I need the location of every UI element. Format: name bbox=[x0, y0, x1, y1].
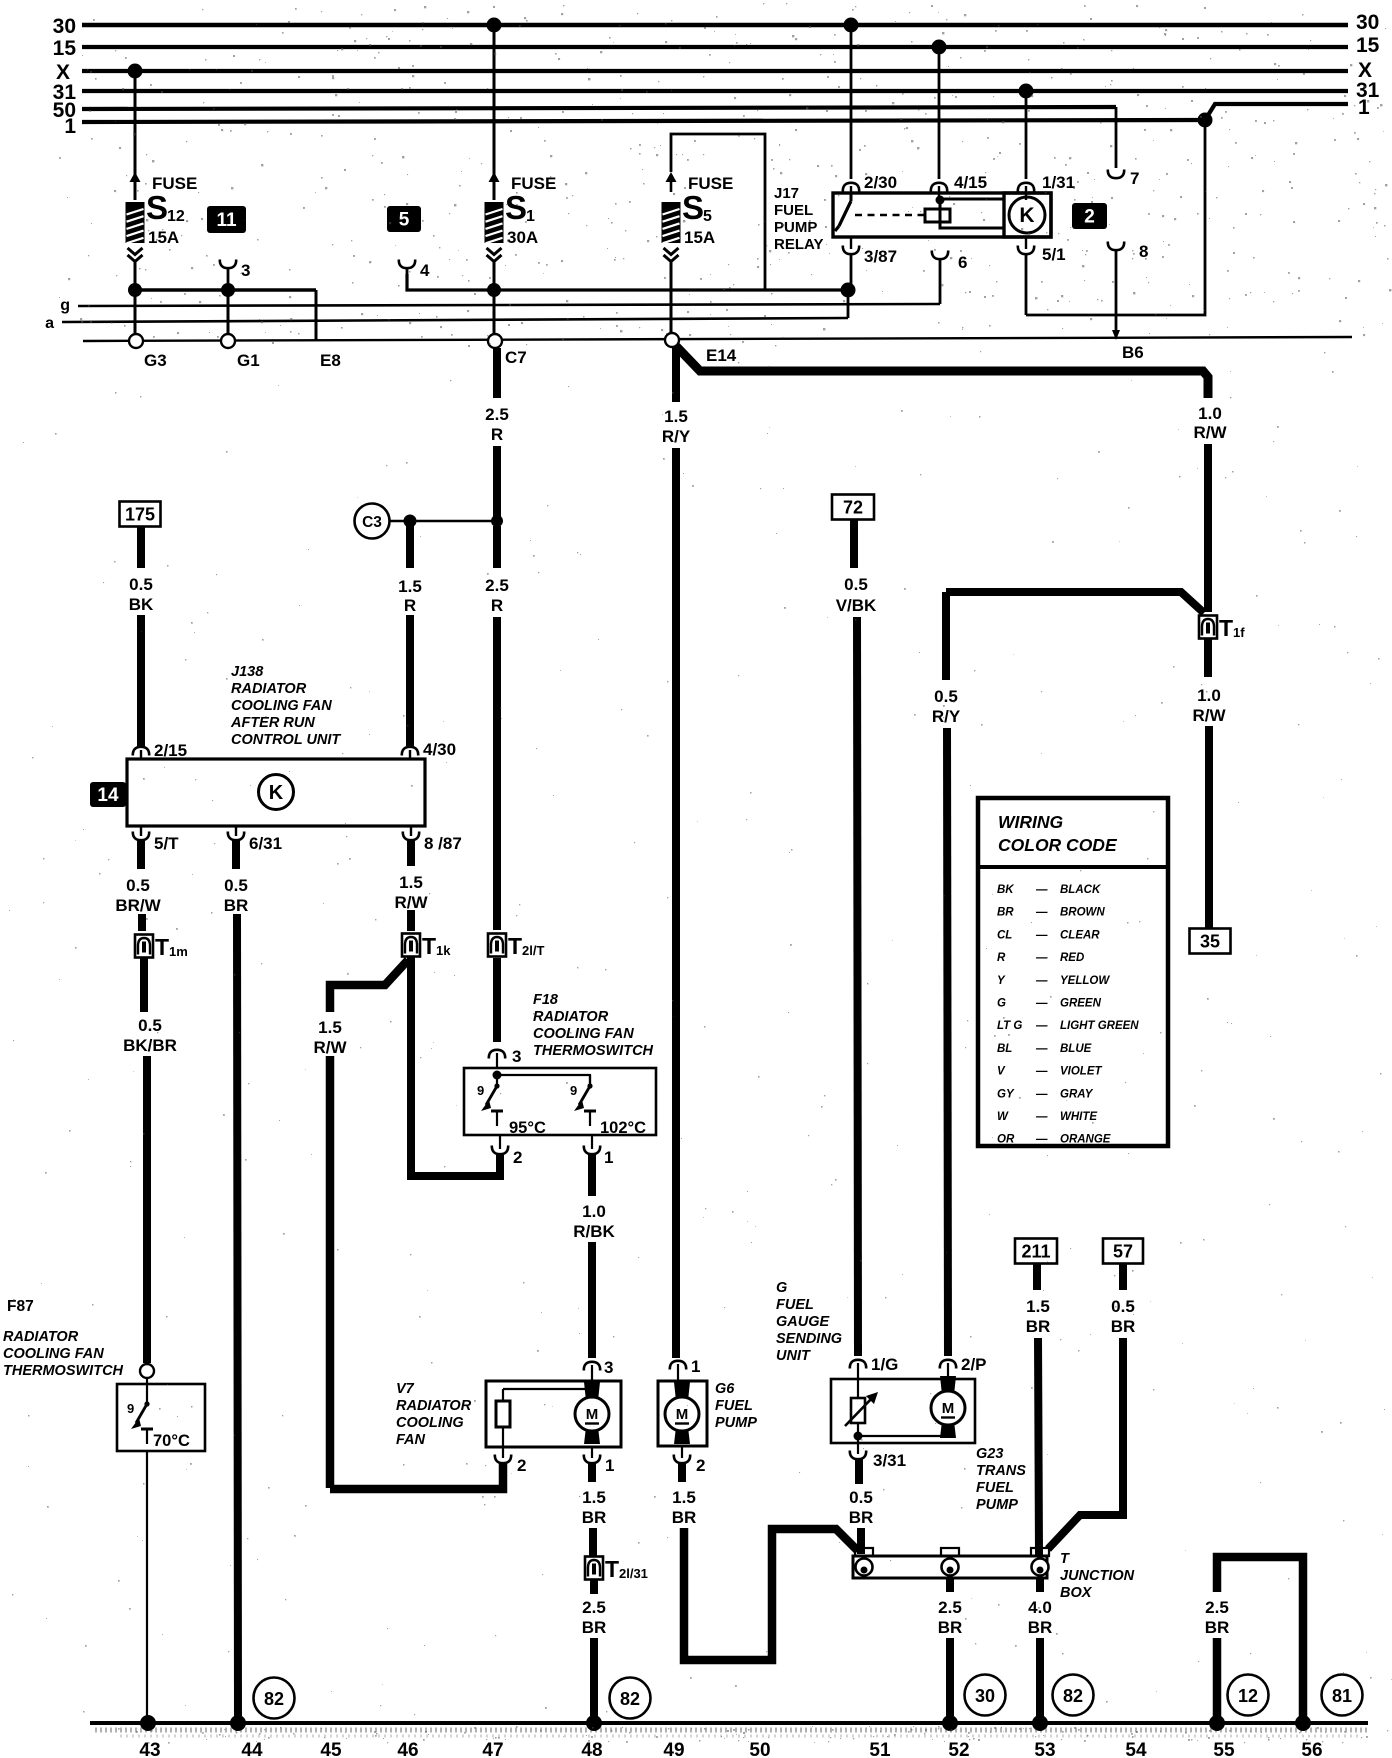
svg-text:GREEN: GREEN bbox=[1060, 998, 1102, 1010]
svg-text:12: 12 bbox=[167, 208, 185, 225]
connector E8 drop wire bbox=[315, 290, 318, 340]
terminal box 175 bbox=[120, 502, 161, 527]
svg-text:82: 82 bbox=[1063, 1686, 1083, 1706]
terminal box 35 bbox=[1190, 929, 1231, 954]
svg-text:54: 54 bbox=[1125, 1740, 1147, 1758]
svg-text:OR: OR bbox=[997, 1134, 1015, 1146]
svg-text:FUEL: FUEL bbox=[774, 202, 813, 219]
svg-text:5: 5 bbox=[703, 208, 712, 225]
svg-text:1.5: 1.5 bbox=[672, 1488, 696, 1507]
label 0.5 BR bbox=[224, 876, 249, 915]
svg-text:2: 2 bbox=[513, 1148, 522, 1167]
svg-text:BR: BR bbox=[849, 1508, 874, 1527]
ground track line bbox=[90, 1723, 1368, 1736]
svg-text:BR: BR bbox=[1111, 1317, 1136, 1336]
wire 1.5 BR from fuel pump G6 to junction box bbox=[682, 1463, 858, 1660]
wire from F87 to ground track 43 bbox=[146, 1451, 148, 1722]
svg-text:82: 82 bbox=[620, 1689, 640, 1709]
svg-text:GRAY: GRAY bbox=[1060, 1088, 1094, 1100]
track symbol 30 at 52 bbox=[965, 1675, 1006, 1716]
svg-text:30: 30 bbox=[975, 1686, 995, 1706]
svg-text:TRANS: TRANS bbox=[976, 1463, 1026, 1479]
svg-text:BR: BR bbox=[1205, 1618, 1230, 1637]
svg-text:9: 9 bbox=[570, 1083, 577, 1098]
track nodes on ground track bbox=[140, 1715, 156, 1731]
svg-text:G6: G6 bbox=[715, 1381, 735, 1397]
label 0.5 BK/BR bbox=[123, 1016, 177, 1055]
sending unit G internal node bbox=[854, 1428, 949, 1441]
svg-text:3/87: 3/87 bbox=[864, 247, 897, 266]
svg-text:2.5: 2.5 bbox=[485, 405, 509, 424]
thermoswitch F18 terminal 2 bbox=[492, 1135, 523, 1167]
svg-text:0.5: 0.5 bbox=[849, 1488, 873, 1507]
label 1.5 BR at G6 bbox=[672, 1488, 697, 1527]
connector T1f bbox=[1199, 616, 1217, 639]
svg-text:RADIATOR: RADIATOR bbox=[533, 1009, 609, 1025]
svg-text:J138: J138 bbox=[231, 664, 264, 680]
svg-text:G1: G1 bbox=[237, 351, 260, 370]
svg-text:COOLING FAN: COOLING FAN bbox=[533, 1026, 634, 1042]
connector E14 bbox=[665, 333, 737, 365]
svg-text:6: 6 bbox=[958, 253, 967, 272]
bus line 15 bbox=[53, 34, 1380, 60]
current track box 14 bbox=[90, 782, 126, 807]
wire 0.5 BR from terminal 57 to junction box bbox=[1048, 1239, 1143, 1550]
label 0.5 V/BK bbox=[836, 575, 877, 615]
svg-text:1.5: 1.5 bbox=[1026, 1297, 1050, 1316]
line a bbox=[45, 290, 848, 332]
wire 2.5 BR to track 48 bbox=[590, 1580, 598, 1722]
svg-text:—: — bbox=[1035, 952, 1048, 964]
svg-text:0.5: 0.5 bbox=[126, 876, 150, 895]
connector T2l/T bbox=[488, 934, 506, 957]
wire relay terminal 4/15 to bus 15 bbox=[931, 40, 987, 205]
svg-text:BK/BR: BK/BR bbox=[123, 1036, 177, 1055]
svg-text:—: — bbox=[1035, 1111, 1048, 1123]
svg-text:211: 211 bbox=[1021, 1242, 1050, 1262]
wire 1.5 R from node C3 down to terminal 4/30 bbox=[406, 521, 414, 746]
radiator cooling fan V7 box bbox=[486, 1381, 621, 1447]
svg-text:C3: C3 bbox=[362, 514, 382, 531]
branch wire 1.5 R/W from T1k to radiator fan V7 terminal 2 bbox=[330, 960, 503, 1489]
svg-text:SENDING: SENDING bbox=[776, 1331, 842, 1347]
label 1.5 BR at 211 bbox=[1026, 1297, 1051, 1336]
svg-text:49: 49 bbox=[663, 1740, 684, 1758]
svg-text:5: 5 bbox=[399, 210, 410, 231]
svg-text:12: 12 bbox=[1238, 1686, 1258, 1706]
svg-text:3/31: 3/31 bbox=[873, 1451, 906, 1470]
wire loop from bus 1 to relay terminal 5/1 bbox=[1026, 113, 1213, 316]
svg-text:VIOLET: VIOLET bbox=[1060, 1066, 1103, 1078]
wire 1.5 R/W from terminal 8/87 to connector T1k bbox=[407, 841, 415, 931]
svg-text:1: 1 bbox=[691, 1357, 700, 1376]
thermoswitch F18 contact 95C bbox=[477, 1074, 546, 1137]
svg-text:2/30: 2/30 bbox=[864, 173, 897, 192]
wire bracket feeding fuse S5 from junction at 3/87 bbox=[671, 134, 765, 290]
label 0.5 BR/W bbox=[115, 876, 161, 915]
connector T1k bbox=[402, 934, 420, 957]
svg-text:1.0: 1.0 bbox=[1198, 404, 1222, 423]
svg-text:1.5: 1.5 bbox=[318, 1018, 342, 1037]
label 1.5 BR at V7 bbox=[582, 1488, 607, 1527]
fuel gauge sending unit G labels bbox=[776, 1280, 842, 1364]
J138 terminal 5/T bbox=[133, 826, 179, 853]
label 1.5 R bbox=[398, 577, 422, 615]
svg-text:1/31: 1/31 bbox=[1042, 173, 1075, 192]
wire 2.5 R from connector C7 down bbox=[493, 348, 501, 1042]
wire fuse S12 to connector G3 bbox=[134, 290, 137, 334]
thermoswitch F87 switch contact 70C bbox=[127, 1392, 190, 1450]
thermoswitch F18 contact 102C bbox=[570, 1074, 646, 1137]
svg-text:5/T: 5/T bbox=[154, 834, 179, 853]
track symbol 81 at 56 bbox=[1322, 1675, 1363, 1716]
J138 terminal 4/30 bbox=[402, 740, 456, 760]
J138 terminal 6/31 bbox=[228, 826, 282, 853]
svg-text:82: 82 bbox=[264, 1689, 284, 1709]
svg-text:BLUE: BLUE bbox=[1060, 1043, 1092, 1055]
svg-text:0.5: 0.5 bbox=[934, 687, 958, 706]
svg-text:6/31: 6/31 bbox=[249, 834, 282, 853]
svg-text:15A: 15A bbox=[148, 228, 179, 247]
svg-text:Y: Y bbox=[997, 975, 1006, 987]
connector at F87 bbox=[140, 1364, 154, 1378]
svg-text:LT G: LT G bbox=[997, 1020, 1022, 1032]
svg-text:2.5: 2.5 bbox=[582, 1598, 606, 1617]
svg-text:C7: C7 bbox=[505, 348, 527, 367]
svg-text:46: 46 bbox=[397, 1740, 418, 1758]
node row wire G3-G1-E8 bbox=[128, 283, 316, 297]
svg-text:J17: J17 bbox=[774, 185, 799, 202]
sending unit G pump motor bbox=[940, 1376, 956, 1395]
wire 1.5 BR from fan V7 terminal 1 bbox=[592, 1463, 593, 1556]
bus line 31 bbox=[53, 79, 1380, 104]
svg-text:—: — bbox=[1035, 1066, 1048, 1078]
terminal 8 wire to connector B6 bbox=[1108, 242, 1149, 333]
svg-text:0.5: 0.5 bbox=[129, 575, 153, 594]
svg-text:FAN: FAN bbox=[396, 1432, 426, 1448]
svg-text:30: 30 bbox=[53, 15, 76, 38]
svg-text:2.5: 2.5 bbox=[1205, 1598, 1229, 1617]
svg-text:14: 14 bbox=[97, 785, 119, 806]
svg-text:2/15: 2/15 bbox=[154, 741, 187, 760]
svg-text:51: 51 bbox=[869, 1740, 891, 1758]
svg-text:F87: F87 bbox=[7, 1298, 34, 1315]
svg-text:1.0: 1.0 bbox=[1197, 686, 1221, 705]
label 0.5 BR at G bbox=[849, 1488, 874, 1527]
svg-text:FUEL: FUEL bbox=[976, 1480, 1014, 1496]
radiator cooling fan V7 labels bbox=[396, 1381, 472, 1448]
svg-text:—: — bbox=[1035, 884, 1048, 896]
svg-text:3: 3 bbox=[241, 261, 250, 280]
svg-text:1f: 1f bbox=[1233, 625, 1245, 640]
svg-text:RADIATOR: RADIATOR bbox=[3, 1329, 79, 1345]
svg-text:5/1: 5/1 bbox=[1042, 245, 1066, 264]
svg-text:15A: 15A bbox=[684, 228, 715, 247]
fan V7 terminal 2 bbox=[495, 1447, 527, 1475]
thermoswitch F18 terminal 3 bbox=[489, 1047, 522, 1069]
svg-text:R: R bbox=[491, 596, 503, 615]
svg-text:30: 30 bbox=[1356, 11, 1379, 34]
fuel pump G6 motor bbox=[674, 1382, 690, 1401]
svg-text:a: a bbox=[45, 315, 54, 332]
svg-text:70°C: 70°C bbox=[153, 1432, 190, 1450]
svg-text:K: K bbox=[269, 782, 284, 804]
svg-text:T: T bbox=[155, 934, 169, 960]
label 2.5 BR at 55 bbox=[1205, 1598, 1230, 1637]
svg-text:72: 72 bbox=[843, 498, 863, 518]
svg-text:0.5: 0.5 bbox=[224, 876, 248, 895]
svg-text:3: 3 bbox=[604, 1358, 613, 1377]
svg-text:T: T bbox=[422, 933, 436, 959]
T junction box label bbox=[1060, 1551, 1135, 1601]
svg-text:JUNCTION: JUNCTION bbox=[1060, 1568, 1135, 1584]
label 1.0 R/W upper bbox=[1193, 404, 1227, 442]
svg-text:R/BK: R/BK bbox=[573, 1222, 615, 1241]
svg-text:R/W: R/W bbox=[394, 893, 428, 912]
svg-text:BR: BR bbox=[582, 1618, 607, 1637]
svg-text:4/15: 4/15 bbox=[954, 173, 987, 192]
svg-text:81: 81 bbox=[1332, 1686, 1352, 1706]
svg-text:M: M bbox=[676, 1406, 689, 1423]
wire from C3 to 2.5R line bbox=[390, 515, 503, 528]
svg-text:COOLING FAN: COOLING FAN bbox=[231, 698, 332, 714]
wire 1.0 R/W from T1f to terminal 35 bbox=[1208, 639, 1209, 931]
svg-text:ORANGE: ORANGE bbox=[1060, 1134, 1111, 1146]
fan V7 terminal 1 bbox=[584, 1447, 615, 1475]
wire 0.5 BR/W from terminal 5/T bbox=[141, 841, 142, 931]
trans fuel pump G23 label bbox=[976, 1446, 1026, 1513]
connector rail bbox=[83, 337, 1352, 341]
svg-text:4: 4 bbox=[420, 261, 430, 280]
svg-text:44: 44 bbox=[241, 1740, 263, 1758]
svg-text:102°C: 102°C bbox=[600, 1119, 646, 1137]
thermoswitch F87 box bbox=[117, 1378, 205, 1451]
svg-text:LIGHT GREEN: LIGHT GREEN bbox=[1060, 1020, 1139, 1032]
label 1.5 R/W upper bbox=[394, 873, 428, 912]
svg-text:0.5: 0.5 bbox=[844, 575, 868, 594]
bus line 50 bbox=[53, 99, 1116, 122]
svg-text:THERMOSWITCH: THERMOSWITCH bbox=[533, 1043, 654, 1059]
svg-text:1: 1 bbox=[1358, 96, 1370, 119]
svg-text:BR: BR bbox=[1026, 1317, 1051, 1336]
track numbers bbox=[139, 1740, 1322, 1758]
svg-text:R: R bbox=[997, 952, 1006, 964]
wire from bus 30 to fuse S1 bbox=[493, 25, 496, 200]
T junction box bbox=[853, 1548, 1049, 1578]
wire 0.5 BR from sending unit G to junction box bbox=[859, 1459, 861, 1554]
svg-text:—: — bbox=[1035, 907, 1048, 919]
svg-text:2/P: 2/P bbox=[961, 1355, 987, 1374]
wire from fuse S12 to node G3 row bbox=[134, 262, 137, 290]
terminal 3 stub bbox=[220, 260, 251, 291]
wire 0.5 V/BK from terminal 72 to sending unit G bbox=[832, 495, 874, 1357]
svg-text:1: 1 bbox=[64, 115, 76, 138]
connector C7 bbox=[488, 290, 527, 367]
svg-text:1: 1 bbox=[605, 1456, 614, 1475]
svg-text:43: 43 bbox=[139, 1740, 160, 1758]
svg-text:PUMP: PUMP bbox=[976, 1497, 1018, 1513]
svg-text:T: T bbox=[1219, 615, 1233, 641]
svg-text:47: 47 bbox=[482, 1740, 503, 1758]
svg-text:BR: BR bbox=[938, 1618, 963, 1637]
terminal 4 stub bbox=[399, 260, 430, 281]
svg-text:GAUGE: GAUGE bbox=[776, 1314, 831, 1330]
svg-text:COOLING FAN: COOLING FAN bbox=[3, 1346, 104, 1362]
svg-text:CLEAR: CLEAR bbox=[1060, 929, 1100, 941]
svg-text:RELAY: RELAY bbox=[774, 236, 823, 253]
label 4.0 BR at 53 bbox=[1028, 1598, 1053, 1637]
svg-text:2: 2 bbox=[696, 1456, 705, 1475]
svg-text:F18: F18 bbox=[533, 992, 559, 1008]
label 2.5 BR at 52 bbox=[938, 1598, 963, 1637]
connector G1 bbox=[221, 290, 260, 370]
svg-text:PUMP: PUMP bbox=[715, 1415, 757, 1431]
svg-text:56: 56 bbox=[1301, 1740, 1322, 1758]
svg-text:—: — bbox=[1035, 1020, 1048, 1032]
fuel pump G6 terminal 2 bbox=[674, 1446, 706, 1475]
fan V7 terminal 3 bbox=[584, 1358, 614, 1382]
svg-text:7: 7 bbox=[1130, 169, 1139, 188]
svg-text:1: 1 bbox=[604, 1148, 613, 1167]
wire relay terminal 1/31 to bus 31 bbox=[1018, 84, 1075, 201]
relay terminal 3/87 with wire to junction node bbox=[843, 237, 897, 290]
svg-text:52: 52 bbox=[948, 1740, 969, 1758]
svg-text:95°C: 95°C bbox=[509, 1119, 546, 1137]
svg-text:1k: 1k bbox=[436, 943, 451, 958]
svg-text:E14: E14 bbox=[706, 346, 737, 365]
svg-text:UNIT: UNIT bbox=[776, 1348, 811, 1364]
svg-text:—: — bbox=[1035, 975, 1048, 987]
thermoswitch F87 labels bbox=[3, 1298, 124, 1379]
line g bbox=[60, 297, 940, 314]
svg-text:V7: V7 bbox=[396, 1381, 415, 1397]
svg-text:T: T bbox=[605, 1556, 619, 1582]
svg-text:4/30: 4/30 bbox=[423, 740, 456, 759]
terminal 6 wire to line g bbox=[932, 251, 968, 305]
label 2.5 R lower bbox=[485, 576, 509, 615]
wire from fuse S5 down to connector E14 bbox=[670, 262, 673, 335]
svg-text:THERMOSWITCH: THERMOSWITCH bbox=[3, 1363, 124, 1379]
svg-text:T: T bbox=[508, 933, 522, 959]
svg-text:1.5: 1.5 bbox=[582, 1488, 606, 1507]
label 1.0 R/W lower bbox=[1192, 686, 1226, 725]
thermoswitch F18 labels bbox=[533, 992, 654, 1059]
svg-text:BR: BR bbox=[997, 907, 1014, 919]
svg-text:2: 2 bbox=[1084, 207, 1095, 228]
svg-text:E8: E8 bbox=[320, 351, 341, 370]
svg-text:2: 2 bbox=[517, 1456, 526, 1475]
svg-text:—: — bbox=[1035, 929, 1048, 941]
control unit J138 box bbox=[127, 759, 425, 826]
svg-text:RED: RED bbox=[1060, 952, 1084, 964]
svg-text:BLACK: BLACK bbox=[1060, 884, 1101, 896]
svg-text:—: — bbox=[1035, 1088, 1048, 1100]
svg-text:55: 55 bbox=[1213, 1740, 1235, 1758]
label 0.5 BR at 57 bbox=[1111, 1297, 1136, 1336]
svg-text:R: R bbox=[404, 596, 416, 615]
svg-text:2.5: 2.5 bbox=[485, 576, 509, 595]
svg-text:R/W: R/W bbox=[1192, 706, 1226, 725]
label 1.0 R/BK bbox=[573, 1202, 615, 1241]
label 2.5 R upper bbox=[485, 405, 509, 444]
track symbol 82 at 44 bbox=[254, 1678, 295, 1719]
current track box 5 bbox=[387, 206, 421, 232]
sending unit G terminal 2/P bbox=[940, 1355, 987, 1380]
svg-text:2l/T: 2l/T bbox=[522, 943, 544, 958]
svg-text:G: G bbox=[776, 1280, 787, 1296]
svg-text:15: 15 bbox=[53, 37, 77, 60]
svg-text:1/G: 1/G bbox=[871, 1355, 898, 1374]
svg-text:R/W: R/W bbox=[313, 1038, 347, 1057]
svg-text:FUEL: FUEL bbox=[715, 1398, 753, 1414]
svg-text:35: 35 bbox=[1200, 932, 1220, 952]
svg-text:30A: 30A bbox=[507, 228, 538, 247]
svg-text:0.5: 0.5 bbox=[1111, 1297, 1135, 1316]
svg-text:—: — bbox=[1035, 1043, 1048, 1055]
track symbol 82 at 48 bbox=[610, 1678, 651, 1719]
svg-text:PUMP: PUMP bbox=[774, 219, 817, 236]
svg-text:BR: BR bbox=[582, 1508, 607, 1527]
wire 0.5 BR from terminal 6/31 to track 44 bbox=[236, 841, 238, 1722]
fuel pump G6 terminal 1 bbox=[670, 1357, 701, 1382]
label 1.5 R/W lower bbox=[313, 1018, 347, 1057]
svg-text:3: 3 bbox=[512, 1047, 521, 1066]
node row wire 4-C7-3/87 bbox=[407, 274, 856, 298]
connector T2l/31 bbox=[585, 1557, 603, 1580]
svg-text:CONTROL UNIT: CONTROL UNIT bbox=[231, 732, 341, 748]
connector T1m bbox=[140, 958, 148, 1012]
svg-text:4.0: 4.0 bbox=[1028, 1598, 1052, 1617]
J138 terminal 8/87 bbox=[403, 826, 462, 853]
fuel gauge sending unit G box bbox=[831, 1379, 975, 1443]
wiring color code legend bbox=[978, 798, 1168, 1146]
svg-text:BROWN: BROWN bbox=[1060, 907, 1105, 919]
node on bus X feeding fuse S12 bbox=[128, 64, 143, 79]
fan V7 motor bbox=[584, 1382, 600, 1401]
svg-text:11: 11 bbox=[216, 210, 237, 231]
fuel pump G6 label bbox=[715, 1381, 757, 1431]
label 1.5 R/Y bbox=[662, 407, 691, 446]
wire from fuse S1 down to node C7 bbox=[493, 262, 496, 290]
current track box 2 bbox=[1072, 203, 1107, 229]
svg-text:15: 15 bbox=[1356, 34, 1380, 57]
bus line X bbox=[56, 59, 1372, 84]
svg-text:WHITE: WHITE bbox=[1060, 1111, 1097, 1123]
svg-text:V/BK: V/BK bbox=[836, 596, 877, 615]
svg-text:BOX: BOX bbox=[1060, 1585, 1093, 1601]
sending unit G variable resistor bbox=[845, 1379, 878, 1436]
svg-text:R/Y: R/Y bbox=[932, 707, 961, 726]
svg-text:45: 45 bbox=[320, 1740, 342, 1758]
svg-text:8: 8 bbox=[1139, 242, 1148, 261]
current track box 11 bbox=[207, 206, 246, 233]
svg-text:T: T bbox=[1060, 1551, 1070, 1567]
thermoswitch F18 box bbox=[464, 1068, 656, 1135]
svg-text:BK: BK bbox=[129, 595, 154, 614]
wire 0.5 BK/BR down to thermoswitch F87 bbox=[143, 1056, 151, 1363]
connector G3 bbox=[129, 334, 167, 370]
sending unit G terminal 1/G bbox=[850, 1355, 899, 1380]
svg-text:GY: GY bbox=[997, 1088, 1015, 1100]
wire 0.5 BK from 175 to terminal 2/15 bbox=[137, 527, 145, 746]
J138 terminal 2/15 bbox=[133, 741, 187, 760]
control unit J138 label bbox=[230, 664, 341, 748]
svg-text:RADIATOR: RADIATOR bbox=[231, 681, 307, 697]
wire 0.5 R/Y branch to sending unit G terminal 2/P bbox=[946, 592, 1204, 1356]
svg-text:175: 175 bbox=[125, 505, 155, 525]
connector B6 bbox=[1112, 330, 1144, 362]
wire relay terminal 2/30 to bus 30 bbox=[843, 18, 897, 201]
